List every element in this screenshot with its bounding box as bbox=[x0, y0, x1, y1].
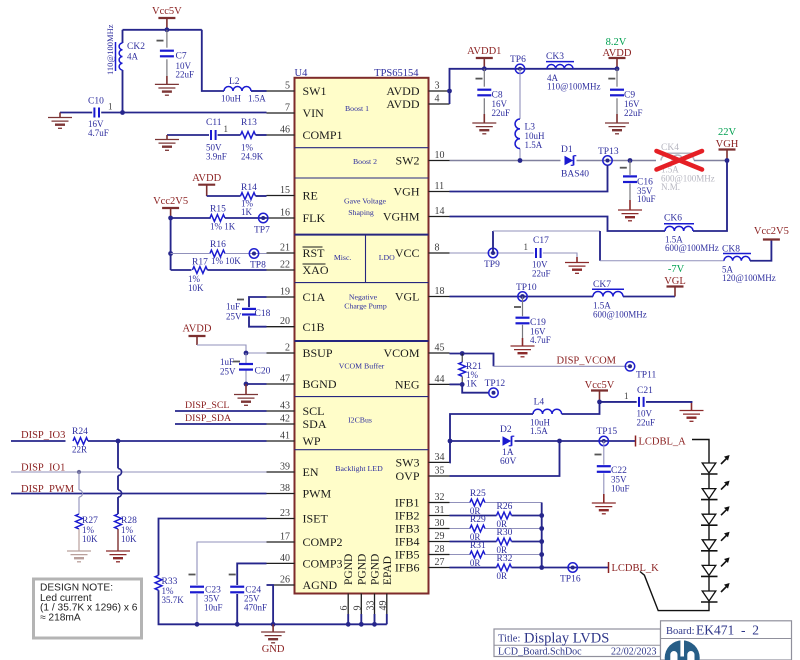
svg-text:CK8: CK8 bbox=[722, 245, 740, 255]
capacitor C8 bbox=[476, 69, 511, 123]
svg-text:Title:: Title: bbox=[498, 634, 520, 645]
svg-text:1.5A: 1.5A bbox=[248, 94, 266, 104]
svg-text:3.9nF: 3.9nF bbox=[206, 152, 227, 162]
wire R13 to COMP1 bbox=[256, 134, 267, 136]
svg-text:IFB2: IFB2 bbox=[395, 509, 420, 523]
svg-text:34: 34 bbox=[435, 452, 445, 463]
svg-text:10K: 10K bbox=[82, 534, 98, 544]
ferrite bead CK4 not mounted bbox=[660, 143, 715, 192]
svg-text:CK7: CK7 bbox=[593, 280, 611, 290]
wire DISP_IO3 to R24 bbox=[11, 440, 66, 442]
power symbol AVDD left bbox=[192, 173, 221, 196]
design note box bbox=[34, 579, 142, 638]
svg-text:18: 18 bbox=[435, 286, 445, 297]
svg-text:29: 29 bbox=[435, 531, 445, 542]
svg-text:NEG: NEG bbox=[395, 378, 420, 392]
capacitor C11 bbox=[206, 118, 228, 162]
junction Vcc2V5-R16 bbox=[168, 251, 173, 256]
svg-text:25V: 25V bbox=[226, 312, 242, 322]
svg-text:46: 46 bbox=[280, 125, 290, 136]
svg-text:1% 1K: 1% 1K bbox=[210, 222, 236, 232]
svg-text:VGH: VGH bbox=[394, 185, 420, 199]
logo mark bbox=[665, 639, 700, 660]
svg-text:AVDD: AVDD bbox=[183, 324, 212, 335]
resistor R26 bbox=[497, 502, 513, 529]
junction DISP_IO1-R27 bbox=[77, 470, 81, 474]
svg-text:C11: C11 bbox=[206, 118, 222, 128]
wire R27 branch vertical bbox=[78, 472, 80, 514]
svg-text:Boost 1: Boost 1 bbox=[345, 104, 369, 113]
svg-text:TP11: TP11 bbox=[636, 371, 656, 381]
svg-text:DISP_SCL: DISP_SCL bbox=[185, 400, 229, 411]
wire R17 to XAO bbox=[207, 269, 266, 271]
svg-text:1K: 1K bbox=[466, 378, 478, 388]
svg-text:1: 1 bbox=[624, 391, 629, 401]
power symbol AVDD1 bbox=[467, 46, 501, 69]
svg-text:7: 7 bbox=[285, 103, 290, 114]
svg-text:22uF: 22uF bbox=[176, 70, 195, 80]
svg-text:8.2V: 8.2V bbox=[606, 37, 627, 48]
svg-text:D1: D1 bbox=[561, 145, 573, 155]
svg-text:TP13: TP13 bbox=[598, 147, 619, 157]
svg-text:R31: R31 bbox=[470, 541, 486, 551]
wire CK4 to VGH node bbox=[694, 160, 727, 162]
capacitor C18 bbox=[226, 300, 271, 322]
ground left of C10 bbox=[48, 113, 72, 129]
junction IFB bus bbox=[539, 526, 544, 531]
svg-text:AVDD1: AVDD1 bbox=[467, 46, 501, 57]
svg-text:COMP1: COMP1 bbox=[303, 128, 343, 142]
svg-text:L4: L4 bbox=[534, 398, 545, 408]
svg-text:110@100MHz: 110@100MHz bbox=[547, 82, 600, 92]
svg-text:Backlight LED: Backlight LED bbox=[335, 464, 383, 473]
svg-text:AGND: AGND bbox=[303, 578, 338, 592]
title block Title text bbox=[498, 631, 609, 647]
svg-text:10K: 10K bbox=[188, 283, 204, 293]
svg-text:LCDBL_A: LCDBL_A bbox=[639, 437, 687, 448]
wire C11 to R13 bbox=[218, 134, 241, 136]
wire LED link bbox=[708, 551, 710, 566]
ground under C9 bbox=[605, 123, 629, 134]
svg-text:25V: 25V bbox=[220, 367, 236, 377]
junction PGND stubs bbox=[346, 622, 377, 627]
ground under C21 bbox=[680, 403, 704, 421]
svg-text:IFB6: IFB6 bbox=[395, 561, 420, 575]
wire AVDD to BSUP bbox=[197, 345, 267, 353]
net label DISP_SCL bbox=[185, 400, 229, 411]
wire AGND to bus bbox=[267, 585, 274, 624]
svg-text:-7V: -7V bbox=[668, 264, 685, 275]
wire LED link bbox=[708, 500, 710, 515]
svg-text:24.9K: 24.9K bbox=[241, 152, 264, 162]
wire Vcc2V5 to R17 bbox=[171, 269, 192, 271]
svg-text:38: 38 bbox=[280, 483, 290, 494]
svg-text:COMP3: COMP3 bbox=[303, 557, 343, 571]
svg-text:21: 21 bbox=[280, 243, 290, 254]
junction L3-SW2 row bbox=[518, 158, 523, 163]
svg-text:TP6: TP6 bbox=[510, 55, 526, 65]
svg-text:44: 44 bbox=[435, 374, 445, 385]
IC U4 designator bbox=[295, 68, 309, 79]
wire COMP2 to C23 bbox=[197, 542, 267, 624]
svg-text:R29: R29 bbox=[470, 515, 486, 525]
svg-text:Display LVDS: Display LVDS bbox=[524, 631, 609, 647]
resistor R27 bbox=[76, 514, 98, 544]
wire TP9 up to CK8 net bbox=[493, 231, 724, 261]
IC U4 pin numbers bbox=[280, 81, 445, 611]
ground under R28 bbox=[106, 551, 130, 562]
svg-text:R16: R16 bbox=[210, 240, 226, 250]
LED D4 backlight bbox=[701, 481, 730, 500]
svg-text:32: 32 bbox=[435, 492, 445, 503]
ferrite bead CK2 bbox=[105, 24, 145, 75]
svg-text:TPS65154: TPS65154 bbox=[374, 68, 419, 79]
svg-text:TP7: TP7 bbox=[254, 226, 270, 236]
wire IFB row R30 bbox=[450, 541, 542, 543]
svg-text:Vcc5V: Vcc5V bbox=[585, 380, 615, 391]
svg-text:22uF: 22uF bbox=[532, 269, 551, 279]
junction IFB bus bbox=[539, 539, 544, 544]
IC U4 part number TPS65154 bbox=[374, 68, 419, 79]
svg-text:31: 31 bbox=[435, 505, 445, 516]
svg-text:10: 10 bbox=[435, 150, 445, 161]
wire Vcc2V5 vertical branch bbox=[170, 218, 172, 270]
junction AVDD1 rail bbox=[482, 66, 487, 71]
svg-text:10uF: 10uF bbox=[204, 603, 223, 613]
svg-text:VGH: VGH bbox=[716, 139, 739, 150]
svg-text:Charge Pump: Charge Pump bbox=[344, 302, 387, 311]
svg-text:COMP2: COMP2 bbox=[303, 535, 343, 549]
wire VCOM row bbox=[450, 354, 494, 367]
svg-text:Vcc5V: Vcc5V bbox=[152, 6, 182, 17]
capacitor C23 bbox=[189, 575, 223, 613]
svg-text:41: 41 bbox=[280, 431, 290, 442]
svg-text:C7: C7 bbox=[176, 52, 187, 62]
title block document name bbox=[498, 646, 582, 657]
junction BSUP-C20 bbox=[244, 351, 249, 356]
wire C1A loop bbox=[249, 297, 267, 327]
svg-text:BGND: BGND bbox=[303, 377, 337, 391]
svg-text:2: 2 bbox=[285, 343, 290, 354]
svg-text:DISP_VCOM: DISP_VCOM bbox=[557, 356, 617, 367]
IC U4 internal section labels bbox=[334, 104, 395, 473]
resistor R14 bbox=[241, 183, 258, 217]
svg-text:8: 8 bbox=[435, 243, 440, 254]
wire LED link bbox=[708, 474, 710, 489]
wire R27 to ground bbox=[78, 529, 80, 551]
junction IFB bus bbox=[539, 552, 544, 557]
ground under C22 bbox=[592, 503, 616, 514]
svg-text:C1A: C1A bbox=[303, 290, 326, 304]
ferrite bead CK3 bbox=[546, 52, 600, 92]
net label LCDBL_K flag bbox=[609, 562, 660, 574]
svg-text:SW3: SW3 bbox=[396, 456, 420, 470]
svg-text:PGND: PGND bbox=[356, 554, 368, 585]
power symbol AVDD lower-left bbox=[183, 324, 212, 346]
resistor R25 bbox=[470, 489, 486, 516]
junction R24-R28 branch bbox=[116, 439, 121, 444]
svg-text:16: 16 bbox=[280, 208, 290, 219]
junction pin3-pin4 bbox=[447, 89, 452, 94]
svg-text:R26: R26 bbox=[497, 502, 513, 512]
wire LED chain bottom to LCDBL_K bbox=[640, 572, 709, 611]
svg-text:19: 19 bbox=[280, 287, 290, 298]
wire R28 branch vertical bbox=[117, 441, 119, 514]
diode D1 bbox=[561, 145, 589, 180]
svg-text:LCD_Board.SchDoc: LCD_Board.SchDoc bbox=[498, 646, 582, 657]
wire SW2 row bbox=[450, 160, 561, 162]
test point TP7 bbox=[254, 213, 270, 235]
junction BGND-C20 bbox=[244, 382, 249, 387]
wire TP15 to C22 bbox=[603, 441, 605, 503]
net label DISP_VCOM bbox=[557, 356, 617, 367]
wire VCC to TP9 C17 bbox=[450, 252, 534, 254]
wire IFB row R26 bbox=[450, 515, 542, 517]
svg-text:D2: D2 bbox=[500, 425, 512, 435]
svg-text:AVDD: AVDD bbox=[386, 84, 419, 98]
power symbol VGH 22V bbox=[716, 127, 739, 161]
svg-text:1: 1 bbox=[224, 124, 229, 134]
wire D2 to TP15 LCDBL_A bbox=[515, 440, 636, 442]
junction TP10-C19 bbox=[520, 294, 525, 299]
junction D2-OVP riser bbox=[557, 439, 562, 444]
svg-text:U4: U4 bbox=[295, 68, 309, 79]
ground under C20 bbox=[234, 384, 258, 405]
svg-text:CK2: CK2 bbox=[127, 42, 145, 52]
wire L4 net bbox=[450, 402, 600, 441]
svg-text:60V: 60V bbox=[500, 457, 517, 467]
capacitor C7 bbox=[157, 30, 195, 85]
svg-text:20: 20 bbox=[280, 316, 290, 327]
power symbol AVDD right 8.2V bbox=[603, 37, 632, 69]
svg-text:4: 4 bbox=[435, 94, 440, 105]
wire R21 to TP12 bbox=[462, 384, 489, 392]
junction IFB bus bottom bbox=[539, 565, 544, 570]
svg-text:120@100MHz: 120@100MHz bbox=[722, 273, 776, 283]
LED D7 backlight bbox=[701, 557, 730, 576]
svg-text:SW2: SW2 bbox=[396, 154, 420, 168]
svg-text:40: 40 bbox=[280, 553, 290, 564]
ground under C7 bbox=[155, 84, 179, 95]
junction CK2-VIN row bbox=[120, 110, 125, 115]
wire VGH pin 11 riser bbox=[450, 165, 608, 192]
wire R14 to RE bbox=[256, 195, 267, 197]
inductor L4 bbox=[530, 398, 562, 437]
wire D2 anode bbox=[450, 440, 500, 442]
resistor R30 bbox=[497, 528, 513, 555]
test point TP6 bbox=[510, 55, 526, 74]
svg-text:TP12: TP12 bbox=[485, 379, 506, 389]
resistor R29 bbox=[470, 515, 486, 542]
capacitor C19 bbox=[514, 297, 551, 347]
svg-text:WP: WP bbox=[303, 434, 321, 448]
svg-text:1.5A: 1.5A bbox=[525, 140, 543, 150]
svg-text:PGND: PGND bbox=[370, 554, 382, 585]
svg-text:RST: RST bbox=[303, 246, 326, 260]
junction Vcc5V-C21 bbox=[597, 400, 602, 405]
net label DISP_IO3 bbox=[21, 430, 65, 441]
test point TP16 bbox=[560, 563, 581, 585]
svg-text:4.7uF: 4.7uF bbox=[88, 128, 109, 138]
svg-text:TP16: TP16 bbox=[560, 575, 581, 585]
svg-text:4.7uF: 4.7uF bbox=[530, 335, 551, 345]
svg-text:SDA: SDA bbox=[303, 417, 327, 431]
svg-text:1: 1 bbox=[524, 242, 529, 252]
ground GND symbol bbox=[261, 624, 285, 655]
wire D1 to TP13 bbox=[577, 160, 657, 162]
wire BGND row bbox=[246, 383, 267, 385]
svg-text:L2: L2 bbox=[229, 77, 240, 87]
svg-text:22/02/2023: 22/02/2023 bbox=[611, 646, 657, 657]
junction C24-bus bbox=[235, 622, 240, 627]
svg-text:GND: GND bbox=[262, 644, 285, 655]
svg-text:ISET: ISET bbox=[303, 512, 329, 526]
svg-text:1uF: 1uF bbox=[220, 357, 234, 367]
test point TP11 bbox=[625, 362, 656, 381]
resistor R31 bbox=[470, 541, 486, 568]
svg-text:Negative: Negative bbox=[349, 293, 378, 302]
board block text bbox=[666, 623, 759, 638]
resistor R24 bbox=[72, 427, 88, 455]
svg-text:Board:: Board: bbox=[666, 626, 695, 637]
ground under C17 bbox=[565, 257, 589, 273]
wire hop R27 over DISP_PWM bbox=[79, 490, 83, 497]
diode D2 bbox=[500, 425, 517, 467]
svg-text:OVP: OVP bbox=[395, 469, 419, 483]
svg-text:LDO: LDO bbox=[379, 253, 395, 262]
wire ISET to bus bbox=[159, 519, 387, 625]
wire DISP_VCOM bbox=[494, 365, 631, 367]
svg-text:R17: R17 bbox=[192, 258, 208, 268]
svg-text:27: 27 bbox=[435, 557, 445, 568]
svg-text:1K: 1K bbox=[241, 207, 253, 217]
board block box bbox=[661, 621, 792, 660]
svg-text:28: 28 bbox=[435, 544, 445, 555]
svg-text:C1B: C1B bbox=[303, 320, 325, 334]
IC U4 pin names bbox=[303, 84, 420, 592]
wire LED link bbox=[708, 525, 710, 540]
svg-text:R25: R25 bbox=[470, 489, 486, 499]
svg-text:C20: C20 bbox=[255, 367, 271, 377]
wire to TP16 LCDBL_K bbox=[542, 567, 609, 569]
wire TP6 to L3 bbox=[519, 69, 521, 161]
title block date bbox=[611, 646, 657, 657]
svg-text:Boost 2: Boost 2 bbox=[353, 157, 377, 166]
power symbol VGL -7V bbox=[664, 264, 686, 297]
svg-text:22uF: 22uF bbox=[637, 418, 656, 428]
wire CK2 vertical net bbox=[122, 30, 124, 113]
wire PGND stubs to bus bbox=[348, 614, 387, 624]
svg-text:TP10: TP10 bbox=[516, 283, 537, 293]
wire Vcc2V5 to R15 bbox=[171, 217, 211, 219]
resistor R16 bbox=[210, 240, 241, 266]
svg-text:26: 26 bbox=[280, 575, 290, 586]
resistor R32 bbox=[497, 554, 513, 581]
LED D3 backlight bbox=[701, 455, 730, 474]
junction VGH node bbox=[725, 158, 730, 163]
test point TP10 bbox=[516, 283, 537, 301]
svg-text:0R: 0R bbox=[470, 558, 481, 568]
svg-text:Gave Voltage: Gave Voltage bbox=[344, 197, 386, 206]
wire L2 to pin SW1 bbox=[251, 90, 267, 92]
svg-text:SCL: SCL bbox=[303, 404, 325, 418]
wire Vcc5V horizontal rail bbox=[123, 29, 202, 31]
inductor L3 bbox=[515, 119, 545, 150]
wire VGH down to CK6 bbox=[693, 161, 727, 232]
svg-text:R24: R24 bbox=[72, 427, 88, 437]
ground under R27 bbox=[67, 551, 91, 562]
svg-text:45: 45 bbox=[435, 343, 445, 354]
svg-text:R13: R13 bbox=[241, 118, 257, 128]
svg-text:42: 42 bbox=[280, 414, 290, 425]
wire VGL row bbox=[450, 296, 676, 298]
svg-text:1.5A: 1.5A bbox=[530, 426, 548, 436]
svg-text:0R: 0R bbox=[497, 571, 508, 581]
capacitor C20 bbox=[220, 357, 271, 377]
svg-text:110@100MHz: 110@100MHz bbox=[105, 24, 115, 75]
net label DISP_IO1 bbox=[21, 463, 65, 474]
svg-text:DISP_SDA: DISP_SDA bbox=[185, 413, 232, 424]
capacitor C22 bbox=[595, 455, 630, 494]
wire C20 vertical bbox=[245, 353, 247, 384]
wire DISP_SCL bbox=[175, 410, 267, 412]
wire SW3 riser bbox=[449, 441, 452, 462]
junction C23-bus bbox=[195, 622, 200, 627]
svg-text:1uF: 1uF bbox=[226, 302, 240, 312]
svg-text:22uF: 22uF bbox=[624, 108, 643, 118]
svg-text:22uF: 22uF bbox=[492, 108, 511, 118]
ground under C8 bbox=[472, 123, 496, 134]
svg-text:EK471 - 2: EK471 - 2 bbox=[696, 623, 759, 638]
svg-text:17: 17 bbox=[280, 532, 290, 543]
svg-text:EPAD: EPAD bbox=[382, 556, 394, 585]
wire COMP3 to C24 bbox=[237, 563, 266, 624]
power symbol Vcc5V top bbox=[152, 6, 182, 30]
svg-text:VIN: VIN bbox=[303, 106, 325, 120]
power symbol Vcc5V mid bbox=[585, 380, 615, 402]
svg-text:35.7K: 35.7K bbox=[162, 595, 185, 605]
red X over CK4 bbox=[657, 151, 703, 170]
junction AGND-bus bbox=[271, 622, 276, 627]
svg-text:R32: R32 bbox=[497, 554, 513, 564]
svg-text:PWM: PWM bbox=[303, 487, 332, 501]
svg-text:Vcc2V5: Vcc2V5 bbox=[754, 226, 789, 237]
wire IFB row R32 bbox=[450, 567, 542, 569]
wire C17 to ground bbox=[543, 253, 577, 258]
svg-text:IFB5: IFB5 bbox=[395, 548, 420, 562]
wire IFB row R31 bbox=[450, 554, 542, 556]
svg-text:BAS40: BAS40 bbox=[561, 170, 589, 180]
svg-text:23: 23 bbox=[280, 508, 290, 519]
capacitor C21 bbox=[624, 386, 655, 428]
LED D5 backlight bbox=[701, 506, 730, 525]
junction Vcc5V-C7 bbox=[165, 27, 170, 32]
svg-text:FLK: FLK bbox=[303, 211, 326, 225]
svg-text:XAO: XAO bbox=[303, 263, 329, 277]
svg-text:R30: R30 bbox=[497, 528, 513, 538]
LED D8 backlight bbox=[701, 583, 730, 602]
wire IFB row R25 bbox=[450, 502, 542, 504]
power symbol Vcc2V5 left bbox=[153, 196, 188, 218]
svg-text:BSUP: BSUP bbox=[303, 346, 333, 360]
svg-text:DISP_IO3: DISP_IO3 bbox=[21, 430, 65, 441]
svg-text:39: 39 bbox=[280, 462, 290, 473]
resistor R33 bbox=[155, 575, 184, 605]
test point TP8 bbox=[249, 249, 266, 271]
svg-text:14: 14 bbox=[435, 206, 445, 217]
resistor R17 bbox=[188, 258, 208, 294]
svg-text:≈ 218mA: ≈ 218mA bbox=[40, 612, 81, 623]
